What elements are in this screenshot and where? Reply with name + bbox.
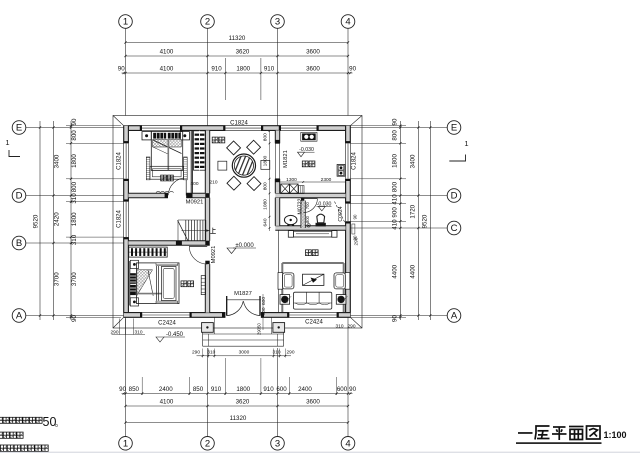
- svg-text:90: 90: [71, 315, 78, 322]
- porch column left: [202, 323, 214, 333]
- svg-text:3700: 3700: [54, 272, 61, 286]
- bedroom1 blanket edge gray line: [167, 140, 169, 171]
- svg-text:1080: 1080: [262, 199, 268, 210]
- svg-text:1:100: 1:100: [603, 430, 626, 440]
- svg-text:3000: 3000: [239, 349, 250, 355]
- svg-text:800: 800: [71, 181, 78, 192]
- window C1824 left lower: [123, 202, 125, 238]
- svg-text:640: 640: [262, 218, 268, 226]
- svg-text:D: D: [451, 191, 458, 202]
- svg-text:9520: 9520: [32, 214, 39, 228]
- grid extension lines top: [125, 28, 127, 115]
- svg-text:3400: 3400: [54, 154, 61, 168]
- bathroom sink: [284, 215, 297, 224]
- svg-text:1: 1: [464, 139, 468, 148]
- bedroom1 nightstand right: [180, 132, 189, 140]
- svg-text:290: 290: [192, 349, 200, 355]
- svg-text:3600: 3600: [306, 66, 320, 73]
- svg-text:2400: 2400: [159, 386, 173, 393]
- svg-text:E: E: [451, 123, 457, 134]
- bedroom2 dresser on wall2: [201, 276, 205, 295]
- bottom fine dim line: [122, 393, 353, 395]
- svg-text:400: 400: [190, 181, 198, 187]
- svg-text:410: 410: [391, 219, 398, 230]
- bathroom floor drain: [307, 224, 310, 227]
- svg-text:900: 900: [391, 207, 398, 218]
- bathroom shower dashes: [335, 202, 346, 224]
- bedroom2 wardrobe: [129, 247, 167, 257]
- kitchen stove right: [337, 165, 345, 177]
- interior wall D kitchen south: [275, 193, 345, 197]
- title underline: [516, 442, 602, 444]
- svg-text:1800: 1800: [71, 154, 78, 168]
- svg-text:310: 310: [71, 234, 78, 245]
- svg-text:290: 290: [110, 329, 118, 335]
- svg-text:C0924: C0924: [338, 206, 344, 221]
- living armchair left: [278, 273, 283, 290]
- svg-text:1800: 1800: [391, 154, 398, 168]
- left total dim line 9520: [39, 121, 41, 320]
- dining chairs: [227, 141, 241, 155]
- svg-text:800: 800: [262, 133, 268, 141]
- right fine dim line: [399, 121, 401, 320]
- living armchair right: [345, 273, 350, 290]
- svg-text:910: 910: [264, 66, 275, 73]
- grid stub lines left: [26, 127, 124, 129]
- svg-text:3700: 3700: [71, 272, 78, 286]
- door M1821 sliding lines: [274, 143, 276, 179]
- window C0924 bathroom right: [349, 204, 351, 222]
- bedroom1 east thin wall: [190, 130, 192, 193]
- staircase: [178, 219, 205, 221]
- bedroom2 foot bench: [156, 263, 178, 265]
- bottom segment dim line: [126, 405, 349, 407]
- svg-text:4: 4: [345, 439, 350, 450]
- note line1 cut off at left: [0, 417, 3, 423]
- svg-text:90: 90: [119, 386, 126, 393]
- top dim line fine: [122, 72, 353, 74]
- svg-text:600: 600: [261, 297, 267, 305]
- svg-text:4400: 4400: [409, 264, 416, 278]
- svg-text:4400: 4400: [391, 264, 398, 278]
- svg-text:910: 910: [211, 66, 222, 73]
- svg-text:90: 90: [71, 118, 78, 125]
- left fine dim line: [70, 121, 72, 320]
- bedroom1 pillows: [153, 133, 166, 139]
- svg-text:3400: 3400: [409, 154, 416, 168]
- left fine extension stubs: [66, 142, 124, 144]
- svg-text:2: 2: [205, 17, 210, 28]
- right exterior wall: [346, 126, 351, 144]
- svg-text:11320: 11320: [230, 415, 247, 422]
- bedroom2 blanket edge gray line: [137, 293, 162, 295]
- svg-text:50: 50: [257, 323, 262, 328]
- window kitchen top: [281, 125, 317, 127]
- svg-text:11320: 11320: [229, 35, 246, 42]
- left exterior wall: [124, 126, 129, 144]
- grid circles bottom: [119, 437, 133, 451]
- bedroom2 blanket hatch: [137, 270, 153, 296]
- label dining room: [212, 137, 218, 143]
- door M0921 bedroom2 (arc+leaf): [189, 245, 207, 247]
- svg-text:90: 90: [353, 214, 358, 219]
- grid circles right: [447, 121, 461, 135]
- living side table left with plant: [280, 295, 290, 305]
- svg-text:3: 3: [275, 439, 280, 450]
- right fine extension stubs: [350, 142, 406, 144]
- svg-text:410: 410: [391, 194, 398, 205]
- svg-text:1: 1: [5, 138, 9, 147]
- bedroom2 corner posts: [130, 260, 138, 268]
- svg-text:1720: 1720: [409, 204, 416, 218]
- bathroom partition wall hatched: [301, 201, 305, 228]
- svg-text:310: 310: [71, 193, 78, 204]
- label bedroom1: [161, 175, 167, 181]
- bedroom2 bed: [137, 263, 180, 304]
- stair direction arrow: [182, 230, 210, 232]
- bedroom2 pillows: [130, 273, 136, 284]
- svg-text:3620: 3620: [236, 49, 250, 56]
- svg-text:90: 90: [391, 315, 398, 322]
- interior wall grid3 dining-kitchen: [275, 130, 279, 143]
- kitchen small unit: [299, 186, 304, 194]
- svg-text:2400: 2400: [298, 386, 312, 393]
- bathroom toilet: [317, 214, 325, 223]
- svg-text:90: 90: [349, 386, 356, 393]
- svg-text:C2424: C2424: [305, 320, 323, 326]
- kitchen sink unit: [301, 132, 317, 141]
- svg-text:1: 1: [123, 17, 128, 28]
- svg-text:850: 850: [193, 386, 204, 393]
- svg-text:600: 600: [276, 386, 287, 393]
- door M0921 bedroom1 (arc+leaf): [185, 178, 187, 196]
- svg-text:700: 700: [305, 202, 310, 210]
- svg-text:B: B: [16, 238, 22, 249]
- svg-text:1800: 1800: [262, 155, 268, 166]
- svg-text:90: 90: [118, 66, 125, 73]
- porch column right: [273, 323, 285, 333]
- svg-text:600: 600: [337, 386, 348, 393]
- svg-text:1800: 1800: [71, 212, 78, 226]
- living coffee table: [303, 274, 324, 285]
- note line2: [0, 432, 3, 438]
- interior wall grid3 bathroom west: [275, 198, 279, 226]
- door M0722 bathroom (arc+leaf): [303, 198, 317, 200]
- wall junction blocks: [186, 193, 192, 197]
- svg-text:C1824: C1824: [116, 152, 122, 170]
- interior wall D bedroom1 south: [128, 193, 168, 197]
- left segment dim line: [53, 121, 55, 320]
- top exterior wall: [124, 126, 142, 131]
- svg-text:M0921: M0921: [186, 200, 204, 206]
- svg-text:D: D: [16, 191, 23, 202]
- svg-text:910: 910: [211, 386, 222, 393]
- top dim line segments: [126, 55, 349, 57]
- svg-text:800: 800: [305, 215, 310, 223]
- stair break line: [178, 220, 188, 241]
- label living room: [306, 250, 312, 256]
- svg-text:C1824: C1824: [230, 121, 248, 127]
- porch step dimensions: [197, 355, 292, 357]
- svg-text:1300: 1300: [286, 177, 297, 183]
- bedroom1 nightstand left: [142, 132, 151, 140]
- window C1824 bedroom1 top: [142, 125, 180, 127]
- svg-text:1800: 1800: [236, 386, 250, 393]
- svg-text:。: 。: [55, 419, 63, 428]
- bedroom1 wall vent marks: [156, 191, 160, 192]
- window C1824 dining top: [225, 125, 261, 127]
- top dim line total 11320: [126, 42, 349, 44]
- svg-text:C: C: [451, 223, 458, 234]
- svg-text:800: 800: [391, 181, 398, 192]
- interior wall C bathroom south: [275, 226, 345, 230]
- living room rug outline: [282, 262, 343, 264]
- living cabinet against bathroom wall: [294, 231, 332, 237]
- svg-text:M1821: M1821: [283, 150, 289, 168]
- svg-text:3600: 3600: [306, 399, 320, 406]
- eave overhang outline: [113, 116, 362, 329]
- svg-text:90: 90: [353, 235, 358, 240]
- svg-text:E: E: [16, 123, 22, 134]
- svg-text:M0921: M0921: [211, 246, 217, 264]
- grid extension lines bottom: [125, 317, 127, 436]
- bedroom1 blanket hatch: [153, 140, 182, 148]
- svg-text:290: 290: [257, 327, 262, 335]
- bottom left corner extension lines: [118, 319, 120, 335]
- entry double door M1827 leaves and arcs: [226, 296, 228, 316]
- svg-text:310: 310: [134, 329, 142, 335]
- interior wall grid2 stair side: [205, 198, 209, 241]
- svg-text:310: 310: [207, 349, 215, 355]
- page bottom rule: [0, 451, 640, 453]
- right segment dim line: [417, 121, 419, 320]
- label bedroom2: [181, 281, 187, 287]
- bedroom1 bed: [151, 131, 182, 170]
- kitchen counter boxes with X: [281, 184, 290, 194]
- svg-text:800: 800: [391, 130, 398, 141]
- label kitchen: [302, 161, 308, 167]
- dining round table: [232, 154, 255, 177]
- window C1824 left upper: [123, 143, 125, 179]
- svg-text:2: 2: [205, 439, 210, 450]
- grid circles top: [119, 15, 133, 29]
- svg-text:A: A: [451, 311, 458, 322]
- bottom total dim line: [126, 422, 349, 424]
- svg-text:3620: 3620: [236, 399, 250, 406]
- bottom exterior wall: [124, 313, 143, 318]
- svg-text:910: 910: [263, 386, 274, 393]
- kitchen interior dim line: [280, 181, 346, 183]
- svg-text:310: 310: [272, 349, 280, 355]
- dining cabinet shelving: [194, 131, 206, 170]
- grid stub lines right: [350, 127, 447, 129]
- svg-text:800: 800: [262, 182, 268, 190]
- bedroom1 foot bench: [146, 157, 150, 180]
- svg-text:3600: 3600: [306, 49, 320, 56]
- svg-text:290: 290: [347, 324, 355, 330]
- svg-text:M0722: M0722: [297, 198, 303, 214]
- svg-text:90: 90: [391, 118, 398, 125]
- dining side fine dim line with 800 1800 800: [269, 131, 271, 231]
- interior wall grid2 bedroom2 side with door opening: [205, 264, 209, 313]
- svg-text:290: 290: [286, 349, 294, 355]
- living side table right with plant: [336, 295, 346, 305]
- porch steps: [203, 333, 284, 335]
- svg-text:C1824: C1824: [352, 152, 358, 170]
- svg-text:4100: 4100: [160, 49, 174, 56]
- svg-text:900: 900: [261, 307, 267, 315]
- svg-text:1: 1: [123, 439, 128, 450]
- interior wall B bedroom2 north: [128, 241, 209, 245]
- svg-text:90: 90: [349, 66, 356, 73]
- interior wall grid2 dining side: [205, 130, 209, 193]
- svg-text:2420: 2420: [54, 212, 61, 226]
- svg-text:210: 210: [209, 180, 217, 186]
- svg-text:850: 850: [129, 386, 140, 393]
- living sofa: [294, 292, 332, 309]
- svg-text:800: 800: [71, 130, 78, 141]
- svg-text:4100: 4100: [160, 66, 174, 73]
- svg-text:2300: 2300: [321, 177, 332, 183]
- eave corner diagonals: [113, 116, 124, 126]
- svg-text:3: 3: [275, 17, 280, 28]
- living room west boundary line: [278, 230, 280, 312]
- svg-text:C2424: C2424: [158, 321, 176, 327]
- svg-text:4100: 4100: [160, 399, 174, 406]
- window C1824 kitchen right: [349, 143, 351, 179]
- svg-text:C1824: C1824: [116, 210, 122, 228]
- svg-text:310: 310: [335, 324, 343, 330]
- grid circles left: [12, 121, 26, 135]
- svg-text:A: A: [16, 311, 23, 322]
- right total dim line 9520: [429, 121, 431, 320]
- title: floor plan name (vector CJK strokes): [518, 432, 533, 434]
- window C2424 bedroom2 bottom: [142, 312, 189, 314]
- svg-text:1800: 1800: [236, 66, 250, 73]
- stair up label: [210, 228, 216, 234]
- svg-text:4: 4: [345, 17, 350, 28]
- window C2424 living bottom: [289, 312, 336, 314]
- svg-text:9520: 9520: [421, 214, 428, 228]
- svg-text:M1827: M1827: [234, 291, 252, 297]
